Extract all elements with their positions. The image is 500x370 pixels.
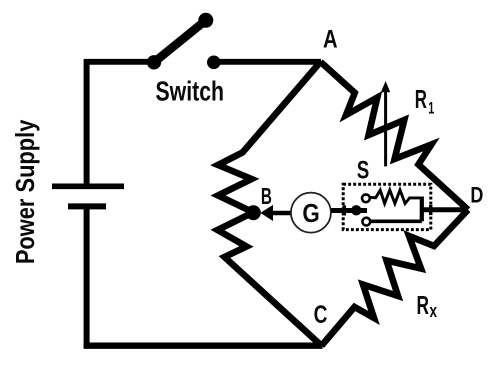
switch right contact dot — [207, 56, 221, 70]
junction dot inside key box — [351, 205, 361, 215]
galvanometer G circle — [291, 193, 331, 233]
right terminal tick — [429, 205, 432, 215]
battery long plate (Power Supply +) — [52, 184, 124, 190]
node B dot — [246, 205, 261, 220]
svg-text:S: S — [357, 157, 370, 185]
resistor Rx zigzag D to C — [322, 210, 469, 346]
svg-text:Switch: Switch — [156, 76, 225, 107]
R1 variable arrow shaft — [384, 90, 387, 166]
switch blade tip dot — [198, 13, 213, 28]
key resistor branch: lead and zigzag — [369, 190, 422, 204]
battery short plate (Power Supply -) — [68, 203, 106, 209]
switch blade — [154, 20, 206, 62]
svg-text:R: R — [417, 292, 430, 320]
wire: left vertical battery to bottom — [84, 206, 90, 348]
svg-text:R: R — [415, 86, 427, 114]
wire: bottom horizontal to node C — [84, 343, 323, 349]
key top terminal circle — [362, 194, 370, 202]
svg-text:x: x — [430, 301, 438, 321]
svg-text:B: B — [261, 183, 272, 209]
wire: top-left vertical from corner to battery — [84, 59, 90, 184]
svg-text:1: 1 — [428, 99, 434, 118]
left terminal tick — [343, 205, 346, 215]
switch left contact dot — [147, 55, 161, 69]
R1 variable arrow head — [381, 81, 390, 92]
svg-text:G: G — [302, 200, 319, 228]
key straight branch (shorting bar) — [366, 220, 422, 224]
resistor R1 zigzag A to D — [321, 62, 469, 210]
wire key box to node D — [422, 207, 466, 212]
key S dotted box — [343, 184, 431, 229]
wire G to key box — [331, 208, 367, 213]
svg-text:Power Supply: Power Supply — [10, 119, 40, 264]
key right vertical bar — [420, 197, 424, 222]
svg-text:C: C — [314, 301, 328, 329]
arrow from galvanometer to B: head — [260, 205, 273, 221]
arrow shaft — [272, 211, 291, 215]
wire: top horizontal to switch — [84, 59, 154, 65]
left bridge arm: resistor zigzag A to C through B — [218, 62, 322, 346]
wire: switch to node A — [214, 59, 321, 65]
svg-text:D: D — [470, 183, 483, 208]
svg-text:A: A — [323, 26, 338, 54]
key bottom terminal circle — [362, 218, 370, 226]
